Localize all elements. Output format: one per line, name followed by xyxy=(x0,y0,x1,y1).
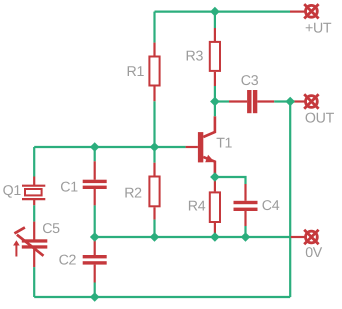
wire right column from OUT junction down to bottom rail xyxy=(289,102,291,298)
wire R1 column xyxy=(153,12,155,43)
crystal Q1 xyxy=(22,186,45,199)
capacitor C4 xyxy=(244,184,246,201)
terminal +UT xyxy=(304,4,318,18)
wire C2 column xyxy=(94,240,96,255)
svg-text:R4: R4 xyxy=(188,199,206,215)
svg-text:+UT: +UT xyxy=(305,21,332,37)
wire top rail red pin stub to +UT xyxy=(290,11,305,13)
wire top rail green xyxy=(155,11,291,13)
terminal 0V xyxy=(304,230,318,244)
svg-text:R2: R2 xyxy=(124,186,142,202)
svg-text:C3: C3 xyxy=(241,73,259,89)
capacitor C1 xyxy=(83,180,107,183)
junction base row C1 xyxy=(90,142,100,152)
wire 0V row xyxy=(95,236,291,238)
transistor T1 xyxy=(198,116,215,177)
junction OUT row R3 xyxy=(210,97,220,107)
svg-text:R3: R3 xyxy=(186,49,204,65)
capacitor C2 xyxy=(83,255,107,258)
wire R3 column xyxy=(214,12,216,28)
svg-text:R1: R1 xyxy=(127,64,145,80)
junction OUT row right xyxy=(285,97,295,107)
junction bottom rail C2 xyxy=(90,292,100,302)
capacitor C3 xyxy=(247,90,251,113)
svg-text:Q1: Q1 xyxy=(3,183,22,199)
wire R2 column xyxy=(153,147,155,163)
wire left column (Q1/C5 branch) xyxy=(33,147,35,177)
junction base row R2 xyxy=(150,142,160,152)
resistor R4 xyxy=(210,192,220,222)
resistor R3 xyxy=(210,42,220,71)
trimmer capacitor C5 xyxy=(13,227,47,256)
junction 0V row R2 xyxy=(150,232,160,242)
wire bottom rail xyxy=(34,296,290,298)
wire C1 column xyxy=(94,147,96,161)
junction emitter node xyxy=(210,172,220,182)
wire emitter junction to R4 xyxy=(214,177,216,191)
resistor R1 xyxy=(149,57,159,86)
junction 0V row C2 xyxy=(90,232,100,242)
svg-text:0V: 0V xyxy=(305,245,323,261)
junction 0V row R4 xyxy=(210,232,220,242)
resistor R2 xyxy=(149,177,159,207)
wire OUT row xyxy=(215,100,229,102)
svg-text:OUT: OUT xyxy=(305,110,335,126)
wire base row xyxy=(34,146,185,148)
svg-text:C5: C5 xyxy=(42,221,60,237)
svg-text:C4: C4 xyxy=(262,198,280,214)
svg-text:C2: C2 xyxy=(59,252,77,268)
junction 0V row C4 xyxy=(241,232,251,242)
junction top rail xyxy=(210,7,220,17)
wire emitter junction over to C4 xyxy=(215,177,246,184)
svg-text:T1: T1 xyxy=(216,136,232,152)
svg-text:C1: C1 xyxy=(60,180,78,196)
terminal OUT xyxy=(304,94,318,108)
